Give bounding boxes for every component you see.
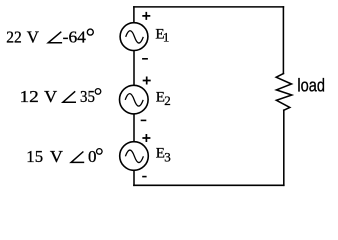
svg-text:15: 15 bbox=[26, 147, 43, 166]
svg-text:3: 3 bbox=[164, 150, 171, 165]
wire E3 to bottom node bbox=[133, 171, 135, 185]
svg-text:load: load bbox=[297, 76, 325, 96]
svg-text:2: 2 bbox=[164, 93, 171, 108]
svg-text:1: 1 bbox=[163, 29, 170, 44]
svg-text:V: V bbox=[27, 27, 39, 46]
wire right lower bbox=[283, 110, 285, 185]
svg-text:V: V bbox=[44, 87, 57, 106]
polarity - of E1 bbox=[142, 58, 148, 60]
wire E2 to E3 bbox=[133, 115, 135, 142]
wire right upper bbox=[282, 7, 284, 74]
label E2 bbox=[156, 90, 171, 109]
label E3 bbox=[156, 146, 171, 165]
polarity + of E2 bbox=[143, 77, 151, 85]
svg-text:0: 0 bbox=[88, 147, 97, 166]
polarity - of E2 bbox=[141, 119, 147, 121]
svg-text:-64: -64 bbox=[63, 27, 87, 46]
wire E1 to E2 bbox=[133, 51, 135, 85]
label E1 bbox=[155, 27, 169, 45]
value label 12 V angle 35 deg bbox=[20, 87, 101, 106]
resistor load bbox=[276, 74, 292, 111]
wire left top (node to E1) bbox=[133, 7, 135, 22]
polarity + of E3 bbox=[142, 134, 150, 142]
source E2 bbox=[120, 85, 149, 114]
value label 15 V angle 0 deg bbox=[26, 147, 102, 166]
svg-text:35: 35 bbox=[80, 87, 95, 106]
source E3 bbox=[120, 142, 149, 171]
polarity + of E1 bbox=[142, 12, 150, 20]
svg-text:22: 22 bbox=[6, 27, 21, 46]
value label 22 V angle -64 deg bbox=[6, 27, 93, 46]
polarity - of E3 bbox=[142, 176, 146, 178]
wire bottom bbox=[134, 184, 284, 186]
svg-text:V: V bbox=[50, 147, 63, 166]
source E1 bbox=[120, 23, 148, 51]
svg-text:12: 12 bbox=[20, 87, 39, 106]
wire top bbox=[134, 6, 284, 8]
